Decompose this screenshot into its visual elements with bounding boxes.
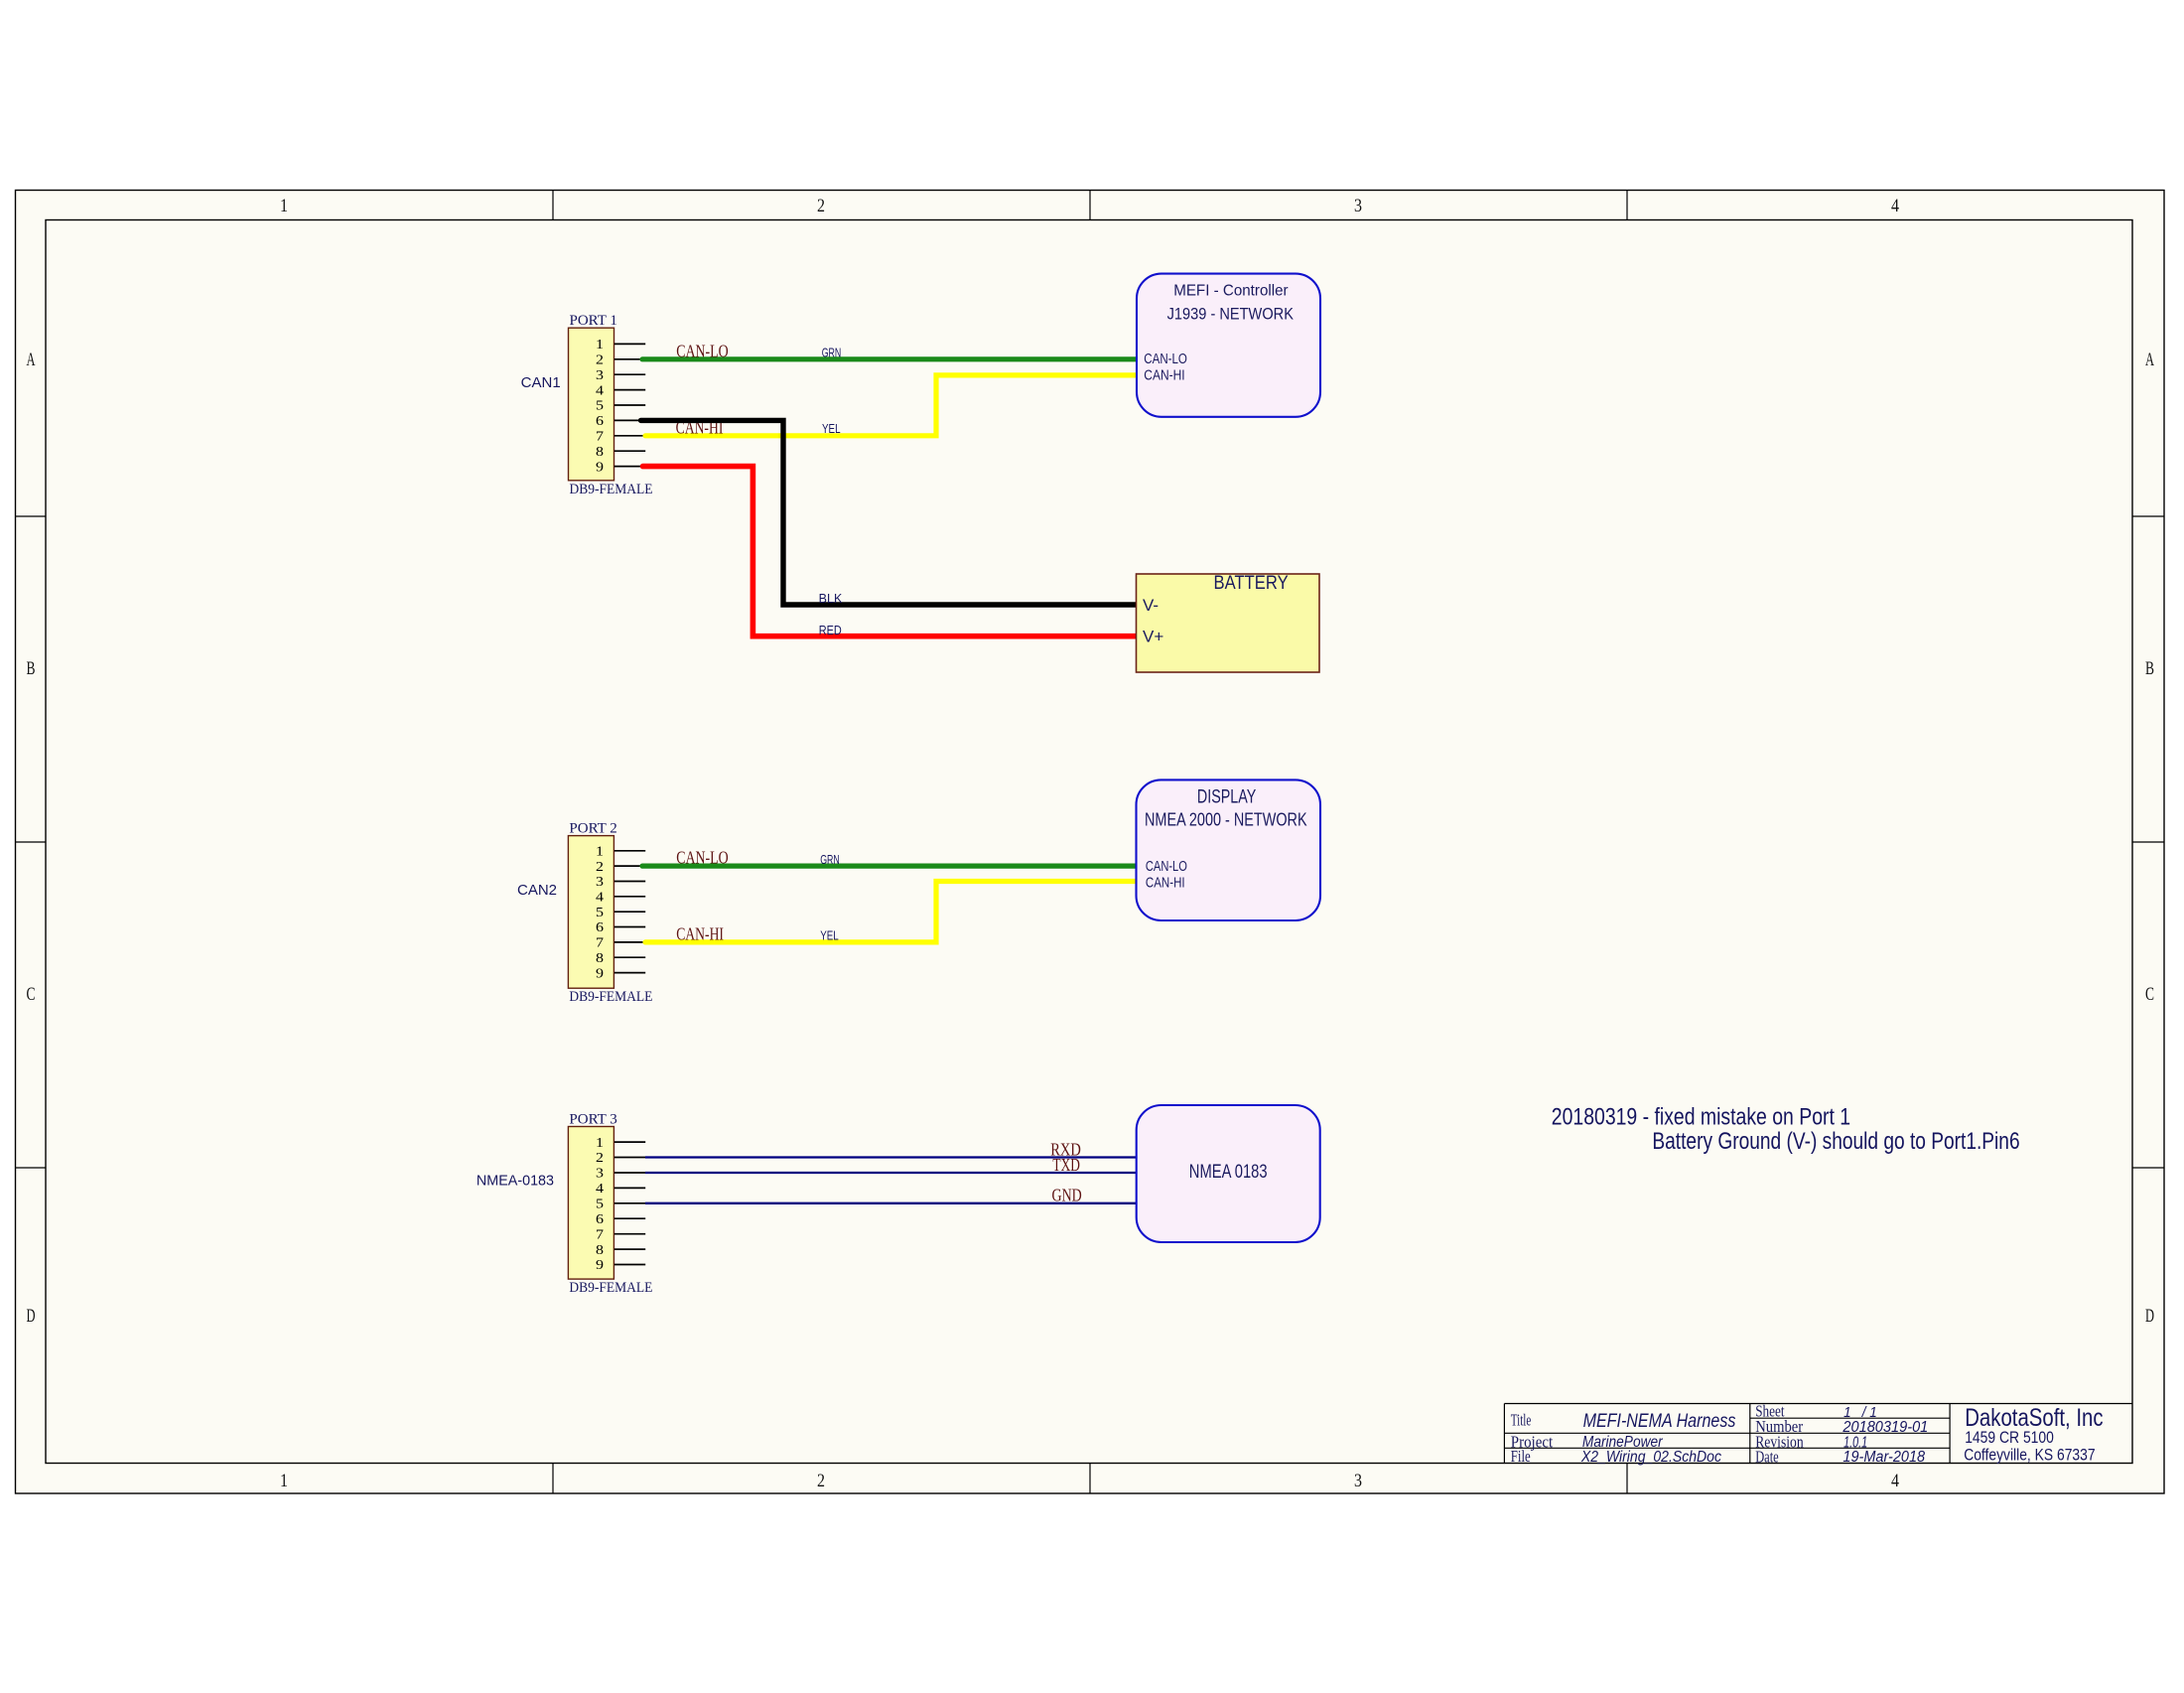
svg-text:8: 8	[596, 445, 604, 460]
svg-text:1: 1	[596, 338, 604, 353]
CAN1 pin numbers	[596, 338, 604, 475]
svg-text:6: 6	[596, 1212, 604, 1227]
svg-text:C: C	[2145, 984, 2154, 1005]
svg-text:20180319-01: 20180319-01	[1842, 1419, 1928, 1436]
svg-text:NMEA 2000 - NETWORK: NMEA 2000 - NETWORK	[1145, 809, 1307, 829]
net label CAN-HI (PORT1)	[676, 418, 724, 438]
DISPLAY sheet symbol	[1137, 779, 1321, 920]
svg-text:3: 3	[596, 875, 604, 890]
MEFI controller sheet symbol	[1137, 274, 1320, 417]
svg-text:7: 7	[596, 430, 604, 445]
project value MarinePower	[1582, 1434, 1663, 1451]
connector CAN1 PORT 1 DB9-FEMALE	[569, 313, 653, 497]
company address line 1	[1965, 1429, 2054, 1447]
svg-text:3: 3	[1354, 1471, 1362, 1491]
svg-text:GND: GND	[1052, 1186, 1082, 1205]
zone labels	[27, 196, 2155, 1491]
svg-text:BLK: BLK	[819, 592, 843, 606]
svg-text:1459 CR 5100: 1459 CR 5100	[1965, 1429, 2054, 1447]
svg-text:1: 1	[596, 845, 604, 860]
wire BLK PORT1.6 to BATTERY V-	[641, 420, 1137, 605]
CAN2 pins 1-9	[614, 851, 645, 973]
connector CAN2 PORT 2 DB9-FEMALE	[568, 821, 652, 1006]
svg-text:7: 7	[596, 936, 604, 951]
svg-text:DB9-FEMALE: DB9-FEMALE	[569, 989, 652, 1005]
svg-text:4: 4	[596, 1182, 604, 1197]
svg-text:DISPLAY: DISPLAY	[1197, 787, 1257, 808]
wire color label GRN	[822, 347, 842, 360]
svg-text:YEL: YEL	[822, 422, 841, 436]
svg-text:CAN-LO: CAN-LO	[676, 848, 729, 868]
net label GND	[1052, 1186, 1082, 1205]
wire GND PORT3.5 to NMEA0183	[645, 1202, 1137, 1204]
annotation note line 2	[1652, 1128, 2019, 1155]
svg-text:19-Mar-2018: 19-Mar-2018	[1843, 1449, 1925, 1466]
wire color label RED	[819, 624, 842, 637]
svg-text:NMEA-0183: NMEA-0183	[477, 1172, 554, 1189]
svg-text:9: 9	[596, 1258, 604, 1273]
CAN1 pins 1-9	[614, 344, 645, 466]
CAN2 designator	[517, 882, 557, 899]
svg-text:8: 8	[596, 951, 604, 966]
svg-text:2: 2	[596, 1151, 604, 1166]
svg-text:Battery Ground (V-) should go: Battery Ground (V-) should go to Port1.P…	[1652, 1128, 2019, 1155]
PORT3 pin numbers	[596, 1136, 604, 1273]
annotation note line 1	[1552, 1104, 1850, 1131]
svg-text:Date: Date	[1755, 1448, 1779, 1467]
DISPLAY pin CAN-LO	[1146, 858, 1187, 875]
BATTERY pin V+	[1143, 628, 1163, 646]
svg-text:RED: RED	[819, 624, 842, 637]
sheet inner border	[46, 220, 2132, 1464]
file value X2_Wiring_02.SchDoc	[1580, 1449, 1721, 1466]
NMEA-0183 designator	[477, 1172, 554, 1189]
svg-text:4: 4	[1891, 1471, 1899, 1491]
CAN1 designator	[521, 374, 561, 391]
sheet outer border	[16, 191, 2165, 1494]
title block label Project	[1511, 1432, 1554, 1451]
svg-text:2: 2	[817, 196, 825, 216]
svg-text:D: D	[27, 1306, 36, 1327]
wire RXD PORT3.2 to NMEA0183	[645, 1156, 1137, 1158]
MEFI pin CAN-LO	[1144, 351, 1187, 367]
svg-text:1: 1	[280, 196, 288, 216]
svg-text:X2_Wiring_02.SchDoc: X2_Wiring_02.SchDoc	[1580, 1449, 1721, 1466]
company address line 2	[1964, 1447, 2095, 1465]
svg-text:3: 3	[596, 1167, 604, 1182]
svg-text:CAN-LO: CAN-LO	[1144, 351, 1187, 367]
svg-text:DakotaSoft, Inc: DakotaSoft, Inc	[1965, 1404, 2103, 1432]
wire CAN-HI YEL PORT2.7 to DISPLAY	[645, 882, 1137, 942]
svg-text:File: File	[1511, 1447, 1531, 1466]
title value MEFI-NEMA Harness	[1583, 1411, 1736, 1432]
svg-text:1: 1	[280, 1471, 288, 1491]
PORT3 pins 1-9	[614, 1142, 645, 1264]
svg-text:4: 4	[596, 383, 604, 398]
svg-text:7: 7	[596, 1227, 604, 1242]
svg-text:V-: V-	[1143, 596, 1159, 615]
MEFI pin CAN-HI	[1144, 367, 1184, 384]
wire color label YEL (PORT1)	[822, 422, 841, 436]
number value 20180319-01	[1842, 1419, 1928, 1436]
svg-text:5: 5	[596, 399, 604, 414]
svg-text:4: 4	[1891, 196, 1899, 216]
svg-text:5: 5	[596, 1198, 604, 1212]
wire CAN-HI YEL PORT1.7 to MEFI	[645, 375, 1137, 436]
svg-text:TXD: TXD	[1052, 1155, 1080, 1175]
svg-text:DB9-FEMALE: DB9-FEMALE	[569, 1280, 652, 1296]
svg-text:5: 5	[596, 906, 604, 920]
svg-text:PORT 2: PORT 2	[569, 821, 616, 837]
svg-text:NMEA 0183: NMEA 0183	[1189, 1162, 1268, 1183]
svg-text:CAN-HI: CAN-HI	[676, 924, 724, 944]
BATTERY pin V-	[1143, 596, 1159, 615]
svg-text:2: 2	[596, 353, 604, 368]
net label CAN-HI (PORT2)	[676, 924, 724, 944]
title block label Sheet	[1755, 1402, 1785, 1421]
title block label File	[1511, 1447, 1531, 1466]
svg-text:8: 8	[596, 1243, 604, 1258]
svg-text:CAN-LO: CAN-LO	[1146, 858, 1187, 875]
svg-text:20180319 - fixed mistake on Po: 20180319 - fixed mistake on Port 1	[1552, 1104, 1850, 1131]
svg-text:9: 9	[596, 966, 604, 981]
svg-text:J1939 - NETWORK: J1939 - NETWORK	[1167, 305, 1294, 323]
wire color label YEL (PORT2)	[820, 928, 839, 942]
wire color label GRN (PORT2)	[820, 853, 840, 867]
company DakotaSoft, Inc	[1965, 1404, 2103, 1432]
svg-text:DB9-FEMALE: DB9-FEMALE	[570, 482, 653, 497]
svg-text:9: 9	[596, 460, 604, 475]
date value 19-Mar-2018	[1843, 1449, 1925, 1466]
wire CAN-LO GRN PORT1.2 to MEFI	[642, 356, 1137, 361]
svg-text:A: A	[2145, 350, 2154, 370]
wire CAN-LO GRN PORT2.2 to DISPLAY	[642, 863, 1137, 868]
svg-text:6: 6	[596, 920, 604, 935]
sheet value 1 / 1	[1843, 1404, 1877, 1421]
svg-text:B: B	[27, 658, 36, 679]
zone ticks	[16, 191, 2165, 1494]
DISPLAY pin CAN-HI	[1146, 875, 1185, 892]
svg-text:PORT 3: PORT 3	[569, 1112, 616, 1128]
svg-text:D: D	[2145, 1306, 2154, 1327]
svg-text:4: 4	[596, 891, 604, 906]
svg-text:C: C	[27, 984, 36, 1005]
BATTERY box	[1137, 572, 1320, 672]
title block label Revision	[1755, 1433, 1804, 1452]
svg-text:CAN-HI: CAN-HI	[1144, 367, 1184, 384]
svg-text:2: 2	[817, 1471, 825, 1491]
svg-text:GRN: GRN	[822, 347, 842, 360]
svg-text:CAN-LO: CAN-LO	[676, 341, 729, 360]
svg-text:3: 3	[1354, 196, 1362, 216]
svg-text:MEFI - Controller: MEFI - Controller	[1173, 283, 1289, 300]
wire TXD PORT3.3 to NMEA0183	[645, 1172, 1137, 1174]
revision value 1.0.1	[1843, 1435, 1867, 1452]
svg-text:PORT 1: PORT 1	[570, 313, 617, 329]
net label CAN-LO (PORT2)	[676, 848, 729, 868]
svg-text:YEL: YEL	[820, 928, 839, 942]
NMEA 0183 sheet symbol	[1137, 1105, 1320, 1242]
svg-text:CAN2: CAN2	[517, 882, 557, 899]
net label TXD	[1052, 1155, 1080, 1175]
title block label Title	[1511, 1410, 1532, 1429]
net label RXD	[1050, 1139, 1081, 1159]
net label CAN-LO (PORT1)	[676, 341, 729, 360]
connector NMEA-0183 PORT 3 DB9-FEMALE	[568, 1112, 652, 1297]
svg-text:Title: Title	[1511, 1410, 1532, 1429]
svg-text:A: A	[27, 350, 36, 370]
svg-text:V+: V+	[1143, 628, 1163, 646]
svg-text:BATTERY: BATTERY	[1214, 572, 1289, 594]
svg-text:1: 1	[596, 1136, 604, 1151]
title block label Date	[1755, 1448, 1779, 1467]
wire color label BLK	[819, 592, 843, 606]
svg-text:B: B	[2145, 658, 2154, 679]
svg-text:6: 6	[596, 414, 604, 429]
wire RED PORT1.9 to BATTERY V+	[643, 467, 1137, 636]
svg-text:CAN-HI: CAN-HI	[1146, 875, 1185, 892]
title block lines	[1504, 1404, 2132, 1464]
svg-text:MEFI-NEMA Harness: MEFI-NEMA Harness	[1583, 1411, 1736, 1432]
svg-text:Coffeyville, KS 67337: Coffeyville, KS 67337	[1964, 1447, 2095, 1465]
CAN2 pin numbers	[596, 845, 604, 982]
svg-text:3: 3	[596, 368, 604, 383]
svg-text:2: 2	[596, 860, 604, 875]
svg-text:CAN1: CAN1	[521, 374, 561, 391]
title block label Number	[1755, 1417, 1803, 1436]
svg-text:GRN: GRN	[820, 853, 840, 867]
